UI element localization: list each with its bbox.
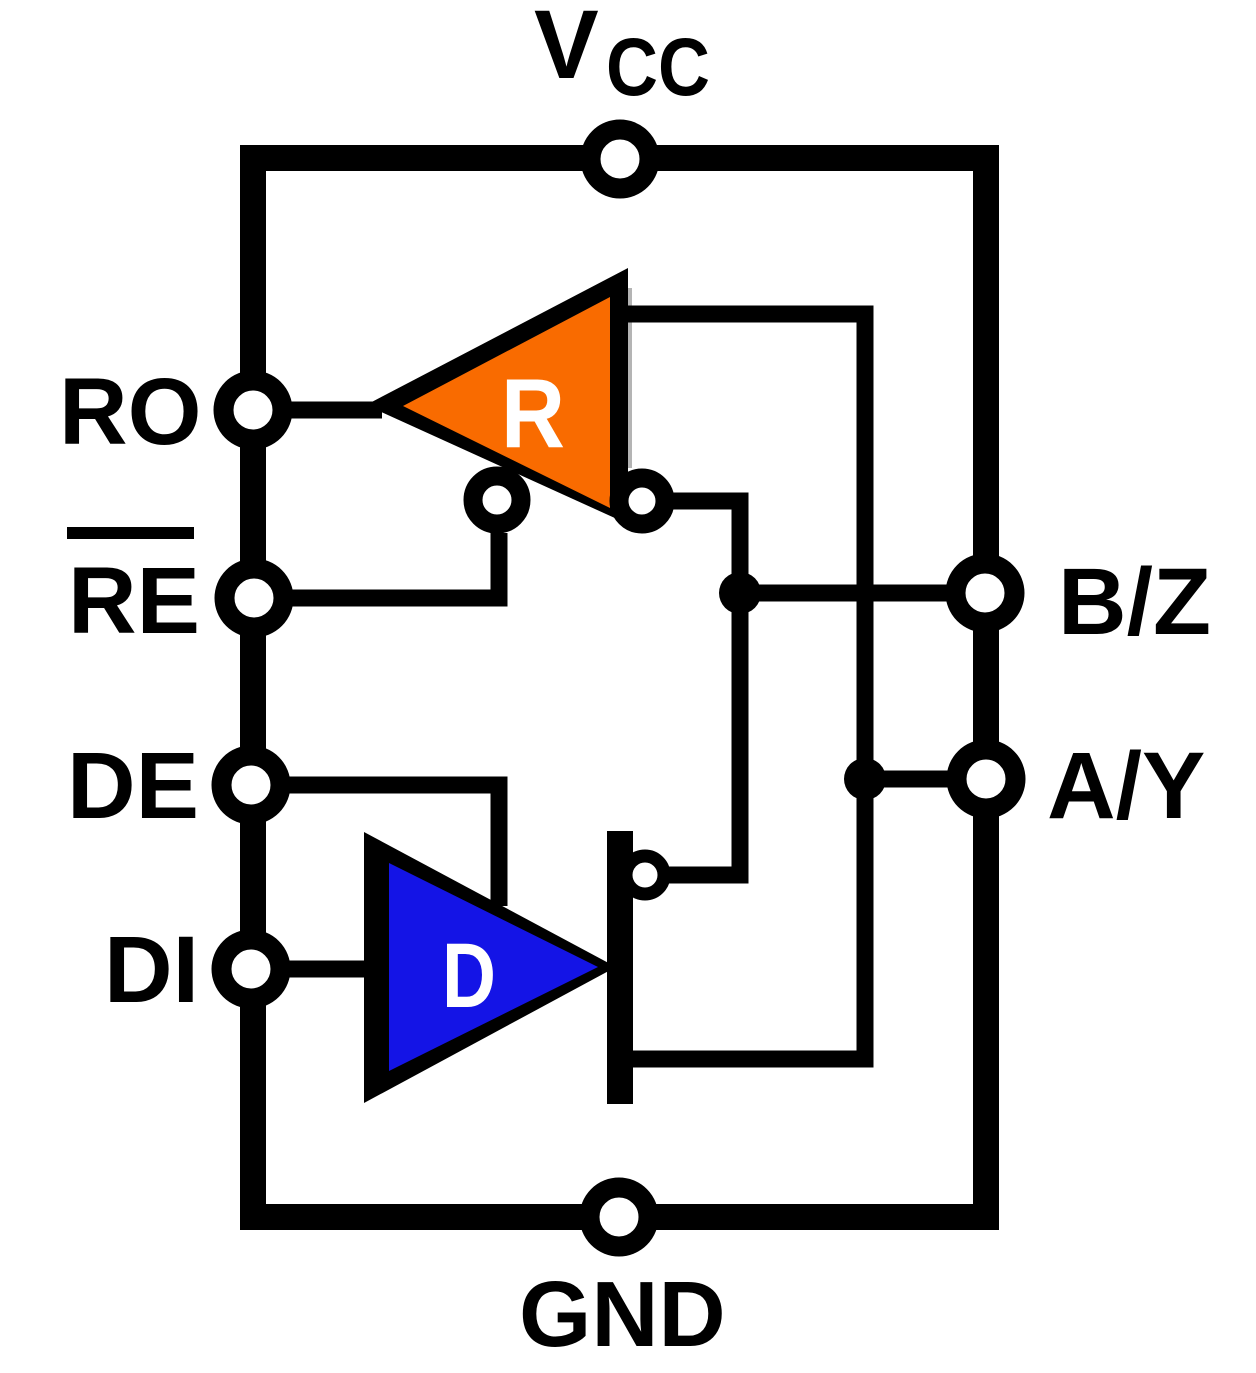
junction node B/Z: [719, 572, 761, 614]
pin A/Y: [957, 750, 1016, 809]
pin B/Z: [956, 564, 1015, 623]
wire node A/Y horizontal to pin: [865, 771, 986, 788]
svg-text:CC: CC: [606, 22, 710, 113]
svg-text:RE: RE: [68, 548, 200, 654]
wire node B/Z horizontal to pin: [740, 585, 986, 602]
receiver R triangle orange fill: [403, 297, 610, 508]
pin RO: [224, 381, 283, 440]
device outline box: [253, 158, 986, 1217]
pin GND: [590, 1188, 649, 1247]
pin DE: [222, 756, 281, 815]
driver D triangle outline: [364, 832, 616, 1103]
wire DE pin to driver enable: [251, 785, 499, 906]
svg-text:RO: RO: [59, 359, 202, 465]
svg-text:DE: DE: [67, 733, 199, 839]
receiver R triangle outline: [366, 268, 628, 524]
svg-text:R: R: [501, 358, 565, 468]
svg-text:D: D: [442, 925, 496, 1027]
driver inverting output bubble: [626, 856, 664, 894]
svg-text:A/Y: A/Y: [1047, 733, 1205, 839]
driver D triangle blue fill: [389, 863, 598, 1071]
junction node A/Y: [844, 758, 886, 800]
receiver inverting input bubble: [619, 478, 665, 524]
svg-text:B/Z: B/Z: [1058, 549, 1211, 655]
wire RE pin to receiver enable bubble: [253, 533, 499, 598]
label RE overline: [67, 527, 194, 539]
driver output bar: [607, 831, 633, 1104]
svg-text:V: V: [534, 0, 599, 99]
pin DI: [222, 940, 281, 999]
pin RE: [225, 569, 284, 628]
pin VCC: [591, 130, 650, 189]
receiver enable bubble: [473, 476, 521, 524]
wire receiver input A: from R back edge top to vertical bus and down to driver output: [612, 314, 865, 1059]
wire receiver inverting input to node B and down to driver inverting output: [668, 501, 740, 875]
svg-text:DI: DI: [104, 917, 199, 1023]
artifact gray line right of receiver back edge: [627, 288, 632, 468]
wire RO to receiver tip: [253, 402, 382, 419]
svg-text:GND: GND: [519, 1262, 726, 1366]
wire DI pin to driver input: [251, 961, 377, 978]
